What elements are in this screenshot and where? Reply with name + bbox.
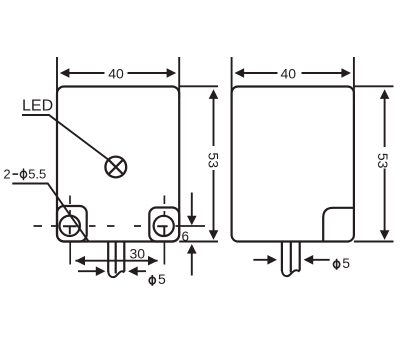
svg-text:53: 53 bbox=[205, 152, 221, 168]
svg-text:5: 5 bbox=[158, 271, 166, 287]
svg-text:6: 6 bbox=[181, 229, 189, 244]
svg-text:40: 40 bbox=[281, 65, 297, 81]
svg-text:40: 40 bbox=[108, 65, 124, 81]
svg-text:53: 53 bbox=[375, 153, 391, 169]
svg-text:5.5: 5.5 bbox=[28, 166, 46, 181]
svg-text:2: 2 bbox=[3, 166, 10, 181]
svg-text:30: 30 bbox=[130, 246, 146, 262]
svg-text:LED: LED bbox=[22, 98, 53, 115]
svg-text:5: 5 bbox=[342, 255, 350, 271]
